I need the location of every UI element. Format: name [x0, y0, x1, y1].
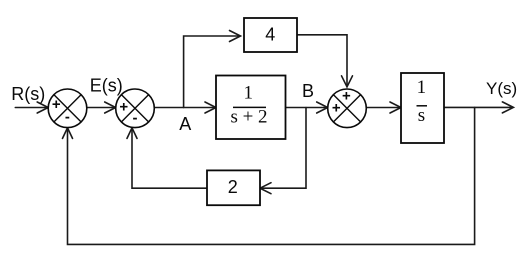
svg-text:+: + — [332, 99, 341, 116]
svg-text:1: 1 — [244, 83, 254, 104]
svg-text:s + 2: s + 2 — [230, 107, 267, 128]
svg-text:Y(s): Y(s) — [486, 79, 517, 98]
svg-text:-: - — [65, 108, 70, 125]
svg-text:E(s): E(s) — [90, 76, 123, 96]
svg-text:+: + — [119, 98, 128, 115]
svg-text:B: B — [302, 81, 314, 101]
svg-text:+: + — [342, 88, 351, 105]
svg-text:4: 4 — [265, 25, 275, 45]
svg-text:-: - — [133, 110, 138, 127]
svg-text:1: 1 — [417, 77, 427, 98]
svg-text:A: A — [179, 114, 191, 134]
svg-text:s: s — [418, 105, 425, 126]
svg-text:R(s): R(s) — [11, 84, 45, 104]
svg-text:2: 2 — [228, 177, 238, 197]
svg-text:+: + — [52, 96, 61, 113]
